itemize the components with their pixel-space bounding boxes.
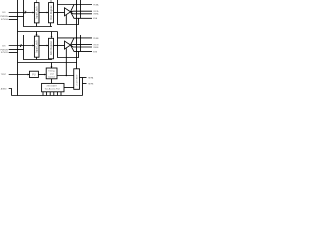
junction dot R1/PDNB (76, 37, 78, 39)
bus4 from L1 to REF drop (18, 62, 78, 64)
amp B fork down VSENB (71, 45, 93, 47)
svg-text:PU: PU (32, 74, 36, 76)
wire wide box to REF (64, 87, 74, 89)
junction dot amp B output (70, 44, 71, 45)
stub A2 top (50, 0, 52, 3)
box PU (30, 71, 39, 77)
svg-text:Two Access Port: Two Access Port (45, 88, 61, 91)
svg-text:PWRDN: PWRDN (0, 50, 8, 52)
box Timing and Control (46, 68, 57, 79)
X_B vertical and ref return B (58, 32, 79, 58)
arrowhead into PU (28, 74, 30, 76)
svg-text:DIN: DIN (2, 12, 5, 14)
svg-text:SYNCB: SYNCB (1, 52, 9, 54)
rail R1 down to REF top (76, 0, 78, 69)
amp A diag to EXA (71, 12, 93, 18)
box B1 INPUT LATCH B (34, 36, 39, 57)
wire pin AGND, corner down to bottom rail (9, 89, 12, 96)
svg-text:EXB: EXB (93, 51, 98, 53)
wire A1 to A2 (39, 12, 48, 14)
svg-text:Input Latch: Input Latch (36, 6, 39, 19)
arrowhead into B2 (47, 45, 49, 47)
stub A2 bottom to bus1 (50, 23, 52, 27)
bottom ground rail (12, 95, 83, 97)
wire pin SYNCB (9, 52, 18, 54)
comb stubs under wide box (43, 92, 61, 96)
ref stub DAC B down to ref wire (65, 48, 67, 75)
wire pin DIN B (9, 45, 34, 47)
wire control to REF (57, 75, 74, 77)
svg-text:XXX 16BIT: XXX 16BIT (47, 86, 58, 88)
box A2 DAC REGISTER (49, 3, 54, 23)
amp B triangle (65, 41, 71, 49)
arrowhead into A1 (33, 12, 35, 14)
svg-text:REFB: REFB (88, 83, 94, 85)
wire pin SYNCA (9, 19, 18, 21)
box A1 INPUT LATCH (34, 3, 39, 23)
rail L2 upper, turns right into bus1 (24, 0, 53, 27)
junction dot R1/PDNA (76, 4, 78, 6)
amp B diag to EXB (71, 45, 93, 51)
wire B1 to B2 (39, 45, 48, 47)
svg-text:REFA: REFA (88, 77, 94, 80)
box REF (74, 69, 80, 90)
amp A fork up VOUTA (71, 10, 93, 13)
wire A2 to DAC A (54, 12, 65, 14)
svg-text:VSENA: VSENA (93, 13, 98, 16)
wire pin PWRDN A (9, 16, 24, 18)
drop bus2 to B1 top (36, 32, 38, 35)
svg-text:2.5V REF: 2.5V REF (77, 74, 79, 86)
svg-text:DIN: DIN (2, 46, 5, 48)
junction dot ref wire (66, 75, 67, 76)
svg-text:TRST: TRST (1, 74, 7, 76)
svg-text:VOUTA: VOUTA (93, 10, 98, 13)
arrowhead into B1 top (36, 34, 38, 36)
branch PDNA line (58, 4, 93, 6)
amp B diag to PDNB line (71, 38, 75, 45)
amp A triangle (65, 8, 71, 16)
svg-text:PDNA: PDNA (93, 4, 99, 7)
arrowhead into A2 (47, 12, 49, 14)
arrowhead into B1 (33, 45, 35, 47)
svg-text:PDNB: PDNB (93, 38, 99, 40)
amp A diag to PDNA line (71, 5, 75, 12)
wire B2 to DAC B (54, 45, 65, 47)
junction dot amp A output (70, 11, 71, 12)
branch PDNB line (58, 37, 93, 39)
bus slash B (20, 45, 21, 47)
ref stub DAC A (65, 15, 67, 25)
vertical right outer (82, 78, 84, 96)
X_A vertical and ref return A (58, 0, 79, 25)
arrowhead into control (44, 74, 46, 76)
svg-text:VSENB: VSENB (93, 47, 98, 49)
box serial register wide (42, 83, 64, 91)
bus2 from L1 (18, 31, 58, 33)
stub A1 bottom to bus1 (36, 23, 38, 27)
svg-text:PWRDN: PWRDN (0, 16, 8, 18)
stub B2 bottom to bus3 (50, 58, 52, 61)
rail R2 (80, 0, 82, 18)
svg-text:SYNCA: SYNCA (1, 18, 9, 21)
stub control bottom to wide box (51, 79, 53, 84)
svg-text:AGND: AGND (1, 87, 7, 90)
rail L1 (17, 0, 19, 96)
wire REFB pin (83, 83, 87, 85)
box B2 DAC REGISTER B (49, 38, 54, 59)
amp A fork down VSENA (71, 12, 93, 14)
wire pin PWRDN B (9, 49, 24, 51)
svg-text:Control: Control (48, 76, 55, 79)
svg-text:EXA: EXA (93, 17, 98, 20)
amp B fork up VOUTB (71, 43, 93, 46)
wire pin TRST (9, 74, 29, 76)
wire REFA pin (80, 77, 87, 79)
rail L2 lower segment into bus3 (24, 35, 53, 60)
wire PU to control (39, 74, 46, 76)
wire pin DIN A (9, 12, 34, 14)
svg-text:Input Latch: Input Latch (36, 40, 39, 53)
arrowhead into control top (51, 66, 53, 68)
arrowhead into B2 top (51, 37, 53, 39)
stub A1 top (36, 0, 38, 3)
drop bus2 to B2 top (51, 32, 53, 37)
svg-text:DAC Register: DAC Register (50, 5, 53, 19)
stub B1 bottom to bus3 (36, 57, 38, 59)
svg-text:DAC Register: DAC Register (50, 41, 53, 55)
drop bus4 into control top (51, 63, 53, 69)
bus slash A (25, 11, 26, 13)
